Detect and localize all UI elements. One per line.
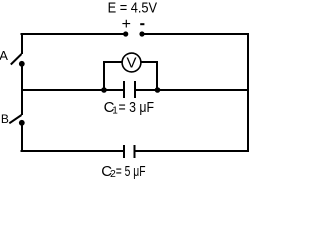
capacitor C1 right plate [134,81,136,98]
voltmeter U1 circle [122,53,141,72]
node dot right of C1 [155,87,161,93]
svg-text:B: B [1,112,9,126]
svg-text:= 3 μF: = 3 μF [119,99,155,116]
capacitor C2 right plate [134,145,136,158]
svg-text:A: A [0,48,8,63]
switch A contact dot [19,61,25,67]
wire left vertical lower [21,123,23,152]
capacitor C1 left plate [123,81,125,98]
wire voltmeter top left segment [103,61,123,63]
wire top rail right of battery [142,33,249,35]
wire middle rail right [136,89,249,91]
battery terminal dot negative [139,31,144,36]
node dot left of C1 [101,87,107,93]
wire voltmeter riser right [156,61,158,90]
switch A lever [11,54,22,65]
svg-text:E = 4.5V: E = 4.5V [108,0,158,17]
svg-text:+: + [122,16,131,33]
wire bottom rail left [21,150,124,152]
battery minus sign [140,23,144,25]
svg-text:1: 1 [112,106,118,117]
wire voltmeter riser left [103,61,105,90]
wire right vertical [247,33,249,152]
wire voltmeter top right segment [141,61,159,63]
switch B contact dot [19,120,25,126]
wire top rail left of battery [21,33,126,35]
capacitor C2 left plate [123,145,125,158]
svg-text:= 5 μF: = 5 μF [116,163,146,180]
wire bottom rail right [135,150,249,152]
svg-text:V: V [126,55,136,72]
wire left vertical middle [21,64,23,115]
wire middle rail left [21,89,124,91]
switch B lever [9,115,21,123]
wire left vertical upper [21,33,23,54]
battery terminal dot positive [123,31,128,36]
